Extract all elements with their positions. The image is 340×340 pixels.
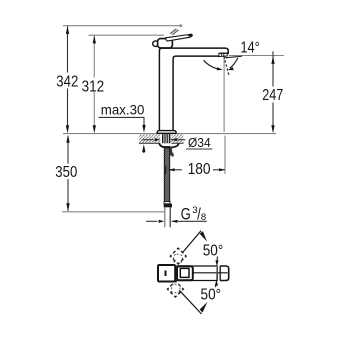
svg-text:8: 8 <box>201 212 206 223</box>
svg-text:14°: 14° <box>240 40 260 57</box>
svg-text:G: G <box>181 205 191 223</box>
svg-text:max.30: max.30 <box>101 101 145 117</box>
svg-text:180: 180 <box>188 161 211 178</box>
svg-text:342: 342 <box>56 73 78 90</box>
svg-text:Ø34: Ø34 <box>188 135 211 150</box>
svg-text:247: 247 <box>262 87 283 104</box>
svg-text:3: 3 <box>192 205 197 216</box>
svg-text:312: 312 <box>82 78 105 95</box>
svg-text:50°: 50° <box>201 286 222 303</box>
svg-text:50°: 50° <box>203 242 224 259</box>
svg-text:350: 350 <box>55 164 77 181</box>
